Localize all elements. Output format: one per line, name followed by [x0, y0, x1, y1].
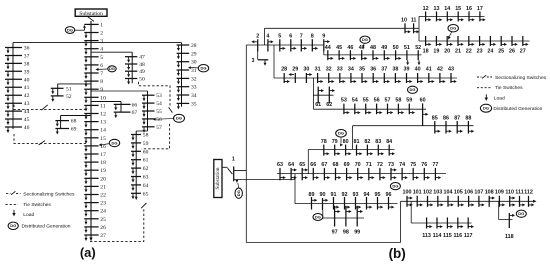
bus 49 (a) — [125, 70, 137, 72]
bus 40 (a) — [5, 78, 22, 80]
bus 19 (a) — [84, 169, 98, 171]
drop bus9 to row 44 — [323, 52, 325, 55]
drop row2 to row 28 — [273, 45, 275, 78]
DG 3 at bus 31 — [198, 65, 208, 72]
bus 55 (a) — [142, 110, 155, 112]
svg-text:93: 93 — [353, 192, 359, 198]
svg-text:33: 33 — [337, 66, 343, 72]
bus 31 (a) — [177, 69, 190, 71]
bus 62 (b) — [328, 87, 330, 104]
bus 12 (b) — [425, 11, 427, 21]
tie switch 43-11 dashed — [14, 105, 86, 110]
svg-text:(a): (a) — [80, 245, 96, 260]
bus 114 (b) — [436, 218, 438, 229]
svg-text:19: 19 — [100, 168, 106, 174]
svg-text:52: 52 — [66, 94, 72, 100]
bus 38 (b) — [394, 73, 396, 83]
svg-text:DG: DG — [176, 116, 182, 121]
svg-text:75: 75 — [410, 162, 416, 168]
svg-text:Sectionalizing Switches: Sectionalizing Switches — [23, 191, 75, 197]
svg-text:26: 26 — [100, 225, 106, 231]
bus 109 (b) — [498, 196, 500, 207]
svg-text:DG: DG — [236, 190, 241, 196]
bus 72 (b) — [379, 168, 381, 180]
svg-text:98: 98 — [343, 230, 349, 236]
bus 49 (b) — [383, 50, 385, 60]
bus 47 (a) — [125, 56, 137, 58]
bus 57 (b) — [387, 104, 389, 115]
row 2-9 feeder line — [246, 44, 323, 46]
svg-text:61: 61 — [143, 158, 149, 164]
svg-text:44: 44 — [325, 45, 331, 51]
svg-text:46: 46 — [347, 45, 353, 51]
svg-text:103: 103 — [433, 190, 442, 196]
svg-text:24: 24 — [487, 48, 493, 54]
svg-text:Distributed Generation: Distributed Generation — [493, 106, 542, 112]
svg-text:18: 18 — [423, 48, 429, 54]
svg-text:4: 4 — [266, 34, 269, 40]
svg-text:7: 7 — [300, 34, 303, 40]
bus 60 (b) — [422, 103, 424, 125]
bus 74 (b) — [401, 168, 403, 180]
bus 41 (b) — [428, 73, 430, 83]
bus 113 (b) — [426, 218, 428, 229]
svg-text:29: 29 — [191, 51, 197, 57]
bus 33 (a) — [177, 86, 190, 88]
bus 34 (a) — [177, 94, 190, 96]
svg-text:111: 111 — [515, 190, 523, 196]
svg-text:65: 65 — [299, 162, 305, 168]
svg-text:90: 90 — [320, 192, 326, 198]
bus 25 (a) — [84, 218, 98, 220]
bus 101 (b) — [416, 196, 418, 207]
bus 5 (a) — [84, 56, 98, 58]
wire bus9/10 to branch 53 — [91, 90, 148, 92]
svg-text:112: 112 — [524, 190, 533, 196]
bus 45 (a) — [5, 118, 22, 120]
svg-text:25: 25 — [498, 48, 504, 54]
feeder end arrow below bus 27 — [89, 238, 92, 242]
svg-text:DG: DG — [338, 131, 344, 136]
bus 87 (b) — [456, 121, 458, 134]
svg-text:5: 5 — [278, 34, 281, 40]
svg-text:Load: Load — [494, 95, 505, 101]
bus 61 (a) — [131, 159, 141, 161]
right feeder line buses 28-35 — [181, 43, 183, 107]
wire bus1 feeder — [234, 170, 247, 172]
svg-text:34: 34 — [191, 93, 197, 99]
svg-text:20: 20 — [100, 176, 106, 182]
bus 78 (b) — [323, 145, 325, 156]
svg-text:3: 3 — [252, 58, 255, 64]
bus 25 (b) — [500, 36, 502, 46]
wire bus12 to branch 68 — [61, 115, 91, 117]
svg-text:40: 40 — [24, 77, 30, 83]
bus 9 (a) — [84, 88, 98, 90]
svg-text:9: 9 — [322, 34, 325, 40]
bus 28 (b) — [283, 73, 285, 83]
bus 19 (b) — [435, 36, 437, 46]
bus 66 (a) — [114, 103, 131, 105]
svg-text:18: 18 — [100, 160, 106, 166]
bus 69 (b) — [346, 168, 348, 180]
bus 64 (a) — [131, 184, 141, 186]
bus 75 (b) — [412, 168, 414, 180]
svg-text:66: 66 — [132, 102, 138, 108]
svg-text:39: 39 — [24, 69, 30, 75]
riser junction to row 89 — [294, 174, 296, 204]
svg-text:63: 63 — [143, 175, 149, 181]
svg-text:101: 101 — [413, 190, 422, 196]
bus 61 (b) — [317, 87, 319, 104]
svg-text:76: 76 — [421, 162, 427, 168]
svg-text:DG: DG — [201, 66, 207, 71]
svg-text:82: 82 — [364, 139, 370, 145]
svg-text:39: 39 — [404, 66, 410, 72]
svg-text:13: 13 — [100, 120, 106, 126]
bus 52 (b) — [417, 50, 419, 60]
svg-text:8: 8 — [100, 79, 103, 85]
svg-text:40: 40 — [415, 66, 421, 72]
svg-text:68: 68 — [333, 162, 339, 168]
svg-text:47: 47 — [139, 55, 145, 61]
bus 42 (b) — [439, 73, 441, 83]
bus 88 (b) — [467, 121, 469, 134]
svg-text:2: 2 — [100, 31, 103, 37]
bus 63 (b) — [279, 168, 281, 180]
bus 26 (a) — [84, 226, 98, 228]
svg-text:56: 56 — [374, 98, 380, 104]
svg-text:DG: DG — [450, 26, 456, 31]
bus 116 (b) — [457, 218, 459, 229]
svg-text:116: 116 — [453, 233, 462, 239]
svg-text:8: 8 — [311, 34, 314, 40]
switch slash substation-bus1 — [88, 17, 94, 22]
branch line buses 47-50 — [131, 52, 133, 83]
svg-text:41: 41 — [24, 85, 30, 91]
svg-text:70: 70 — [355, 162, 361, 168]
svg-text:23: 23 — [477, 48, 483, 54]
bus 30 (b) — [305, 73, 307, 83]
jog in branch at bus 57/58 — [136, 130, 147, 132]
bus 48 (a) — [125, 63, 137, 65]
bus 7 (a) — [84, 72, 98, 74]
bus 53 (b) — [343, 104, 345, 115]
svg-text:29: 29 — [292, 66, 298, 72]
svg-text:Distributed Generation: Distributed Generation — [22, 224, 71, 230]
bus 68 (a) — [55, 120, 69, 122]
bus 80 (b) — [345, 145, 347, 156]
svg-text:DG: DG — [315, 214, 321, 219]
svg-text:32: 32 — [326, 66, 332, 72]
bus 10 (b) — [404, 23, 406, 33]
svg-text:14: 14 — [100, 128, 106, 134]
svg-text:21: 21 — [100, 184, 106, 190]
riser row10 to rows 12/18 — [418, 16, 420, 28]
bus 103 (b) — [437, 196, 439, 207]
branch connector 66-67 — [120, 102, 122, 113]
tie switch 50-59 dashed lower — [142, 124, 170, 149]
bus 54 (a) — [142, 102, 155, 104]
svg-text:84: 84 — [386, 139, 392, 145]
svg-text:51: 51 — [404, 45, 410, 51]
bus 44 (a) — [5, 110, 22, 112]
DG at bus 39 (b) — [408, 86, 418, 93]
drop row28 to rows 61/53 — [312, 78, 314, 109]
bus 38 (a) — [5, 62, 22, 64]
legend (a) DG symbol — [8, 222, 18, 229]
svg-text:54: 54 — [352, 98, 358, 104]
svg-text:(b): (b) — [389, 246, 406, 261]
svg-text:14: 14 — [444, 6, 450, 12]
bus 3 (b) — [257, 52, 259, 60]
svg-text:109: 109 — [495, 190, 504, 196]
svg-text:50: 50 — [139, 77, 145, 83]
svg-text:Load: Load — [23, 212, 34, 218]
row 78-84 feeder line — [308, 148, 394, 150]
bus 32 (b) — [328, 73, 330, 83]
drop bus90 to row 97 — [322, 210, 324, 218]
svg-text:DG: DG — [518, 211, 524, 216]
bus 39 (b) — [406, 73, 408, 83]
svg-text:59: 59 — [406, 98, 412, 104]
svg-text:55: 55 — [363, 98, 369, 104]
svg-text:104: 104 — [444, 190, 453, 196]
svg-text:102: 102 — [423, 190, 432, 196]
bus 8 (b) — [311, 39, 313, 51]
svg-text:26: 26 — [509, 48, 515, 54]
svg-text:17: 17 — [477, 6, 483, 12]
svg-text:117: 117 — [464, 233, 473, 239]
svg-text:48: 48 — [370, 45, 376, 51]
svg-text:1: 1 — [232, 157, 235, 163]
DG at bus 73 (b) — [390, 183, 400, 190]
bus 8 (a) — [84, 80, 98, 82]
bus 102 (b) — [427, 196, 429, 207]
bus 52 (a) — [51, 95, 64, 97]
svg-text:85: 85 — [432, 115, 438, 121]
svg-text:48: 48 — [139, 62, 145, 68]
svg-text:Substation: Substation — [215, 167, 221, 189]
svg-text:67: 67 — [321, 162, 327, 168]
svg-text:68: 68 — [71, 119, 77, 125]
DG at bus 1 (b) rotated — [235, 188, 242, 198]
tie switch 46-15 dashed — [14, 134, 86, 143]
svg-text:52: 52 — [415, 45, 421, 51]
wire bus9 to branch 51 — [58, 83, 91, 85]
svg-text:24: 24 — [100, 209, 106, 215]
bus 20 (b) — [446, 36, 448, 46]
legend (b) DG symbol — [480, 104, 491, 112]
svg-text:57: 57 — [385, 98, 391, 104]
bus 66 (b) — [312, 168, 314, 180]
svg-text:65: 65 — [143, 191, 149, 197]
bus 1 (b) — [233, 166, 235, 181]
svg-text:28: 28 — [281, 66, 287, 72]
svg-text:Tie Switches: Tie Switches — [495, 85, 523, 91]
svg-text:6: 6 — [100, 63, 103, 69]
bus 56 (b) — [376, 104, 378, 115]
bus 6 (b) — [290, 39, 292, 51]
bus 107 (b) — [478, 196, 480, 207]
main vertical trunk (b) — [245, 45, 247, 243]
bus 24 (b) — [489, 36, 491, 46]
DG at bus 20 (b) — [448, 25, 458, 32]
bus 50 (b) — [395, 50, 397, 60]
bus 98 (b) — [345, 206, 347, 227]
legend (b) load symbol — [485, 94, 487, 97]
bus 32 (a) — [177, 77, 190, 79]
svg-text:95: 95 — [375, 192, 381, 198]
svg-text:106: 106 — [464, 190, 473, 196]
bus 48 (b) — [372, 50, 374, 60]
svg-text:38: 38 — [24, 61, 30, 67]
riser row78 to row 85 — [352, 126, 354, 150]
DG at bus 47 (b) — [360, 36, 370, 43]
svg-text:15: 15 — [455, 6, 461, 12]
svg-text:67: 67 — [132, 110, 138, 116]
svg-text:31: 31 — [191, 68, 197, 74]
bus 57 (a) — [142, 126, 155, 128]
svg-text:5: 5 — [100, 55, 103, 61]
wire bus4 to branch 47 — [91, 51, 132, 53]
bus 112 (b) — [528, 196, 530, 207]
switch slash tie 50-59 — [169, 107, 173, 112]
bus 69 (a) — [55, 128, 69, 130]
bus 46 (b) — [349, 50, 351, 60]
tie switch 50-59 dashed upper — [139, 82, 171, 107]
svg-text:71: 71 — [366, 162, 372, 168]
bus 76 (b) — [423, 168, 425, 180]
svg-text:DG: DG — [10, 223, 16, 228]
svg-text:6: 6 — [289, 34, 292, 40]
bus 17 (b) — [479, 11, 481, 21]
bus 26 (b) — [511, 36, 513, 46]
main feeder line (a) buses 1-27 — [90, 21, 92, 238]
bus 82 (b) — [366, 145, 368, 156]
bus 60 (a) — [131, 150, 141, 152]
svg-text:10: 10 — [401, 18, 407, 24]
svg-text:118: 118 — [505, 234, 514, 240]
bus 94 (b) — [366, 197, 368, 210]
bus 79 (b) — [334, 145, 336, 156]
svg-text:23: 23 — [100, 201, 106, 207]
bus 37 (a) — [5, 55, 22, 57]
svg-text:38: 38 — [392, 66, 398, 72]
bus 43 (b) — [450, 73, 452, 83]
svg-text:58: 58 — [143, 133, 149, 139]
bus 73 (b) — [390, 168, 392, 180]
svg-text:DG: DG — [410, 87, 416, 92]
svg-text:86: 86 — [443, 115, 449, 121]
bus 7 (b) — [300, 39, 302, 51]
wire bus1 junction to rows 63/89 — [234, 179, 295, 181]
svg-text:35: 35 — [359, 66, 365, 72]
svg-text:36: 36 — [24, 46, 30, 52]
svg-text:22: 22 — [100, 193, 106, 199]
bus 44 (b) — [327, 50, 329, 60]
svg-text:21: 21 — [455, 48, 461, 54]
bus 14 (a) — [84, 129, 98, 131]
svg-text:42: 42 — [24, 93, 30, 99]
bus 35 (b) — [361, 73, 363, 83]
svg-text:57: 57 — [156, 125, 162, 131]
row 113-117 feeder line — [411, 222, 471, 224]
wire bus3 to left lateral and right feeder 28 — [13, 42, 182, 44]
bus 83 (b) — [377, 145, 379, 156]
bus 45 (b) — [338, 50, 340, 60]
svg-text:60: 60 — [143, 149, 149, 155]
svg-text:43: 43 — [24, 101, 30, 107]
svg-text:114: 114 — [433, 233, 442, 239]
bus 70 (b) — [357, 168, 359, 180]
svg-text:7: 7 — [100, 71, 103, 77]
svg-text:94: 94 — [364, 192, 370, 198]
svg-text:56: 56 — [156, 117, 162, 123]
drop row100 to row 113 — [410, 201, 412, 223]
riser bottom trunk to row 100 — [400, 201, 402, 242]
bus 29 (b) — [294, 73, 296, 83]
bus 23 (a) — [84, 202, 98, 204]
bus 59 (a) — [131, 142, 141, 144]
svg-text:92: 92 — [342, 192, 348, 198]
substation box (a) — [75, 9, 107, 16]
bus 18 (a) — [84, 161, 98, 163]
switch slash tie 27-65 — [141, 203, 146, 208]
bus 3 (a) — [84, 40, 98, 42]
bus 43 (a) — [5, 102, 22, 104]
row 18-27 feeder line — [419, 40, 530, 42]
svg-text:91: 91 — [331, 192, 337, 198]
svg-text:53: 53 — [156, 93, 162, 99]
svg-text:59: 59 — [143, 141, 149, 147]
bus 50 (a) — [125, 78, 137, 80]
bus 84 (b) — [388, 145, 390, 156]
bus 104 (b) — [447, 196, 449, 207]
wire substation to bus 1 — [222, 166, 228, 168]
legend (b) tie switches symbol — [477, 87, 492, 89]
bus 92 (b) — [344, 197, 346, 210]
svg-text:62: 62 — [326, 102, 332, 108]
DG 1 at bus 1 — [65, 27, 74, 34]
svg-text:77: 77 — [432, 162, 438, 168]
switch slash substation-bus1 (b) — [228, 168, 233, 174]
bus 15 (b) — [457, 11, 459, 21]
row 61-62 feeder line — [313, 94, 333, 96]
bus 71 (b) — [368, 168, 370, 180]
bus 68 (b) — [335, 168, 337, 180]
bus 53 (a) — [142, 94, 155, 96]
row 44-52 feeder line — [324, 54, 422, 56]
svg-text:36: 36 — [370, 66, 376, 72]
bus 21 (b) — [457, 36, 459, 46]
svg-text:49: 49 — [381, 45, 387, 51]
bus 22 (a) — [84, 194, 98, 196]
svg-text:15: 15 — [100, 136, 106, 142]
svg-text:DG: DG — [483, 106, 489, 111]
bus 2 (b) — [257, 39, 259, 51]
svg-text:10: 10 — [100, 95, 106, 101]
svg-text:83: 83 — [375, 139, 381, 145]
bus 40 (b) — [417, 73, 419, 83]
svg-text:72: 72 — [377, 162, 383, 168]
bus 9 (b) — [323, 39, 325, 51]
svg-text:69: 69 — [344, 162, 350, 168]
svg-text:DG: DG — [392, 184, 398, 189]
row 53-60 feeder line — [313, 108, 426, 110]
bus 55 (b) — [365, 104, 367, 115]
svg-text:31: 31 — [315, 66, 321, 72]
